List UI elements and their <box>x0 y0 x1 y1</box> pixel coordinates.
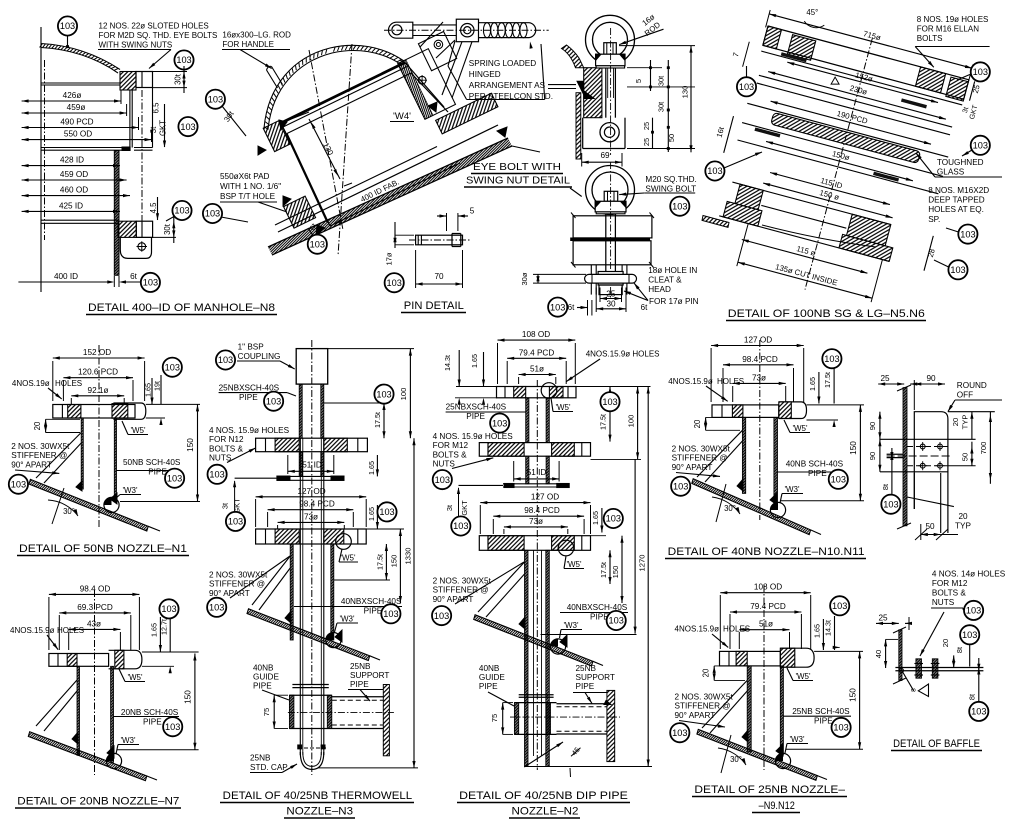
N2 40NB pipe walls <box>525 550 529 766</box>
svg-text:PIPE: PIPE <box>350 680 369 689</box>
N3 flange2 <box>256 529 367 544</box>
svg-text:1270: 1270 <box>638 555 647 572</box>
balloon 103 swing bolt <box>670 197 689 216</box>
washer lower <box>596 212 625 214</box>
N2 dim 51 ID <box>514 478 559 480</box>
N2 25NB inner pipe lines <box>533 550 535 756</box>
svg-text:150: 150 <box>186 438 195 452</box>
N7 balloon top <box>159 599 178 618</box>
svg-text:FOR M12: FOR M12 <box>433 441 469 450</box>
M leader to bolts <box>920 612 944 656</box>
N1 dim 20 stiffener <box>45 419 47 432</box>
N1 balloon pipe <box>165 469 184 488</box>
svg-text:90: 90 <box>926 374 936 383</box>
pad block lower-left <box>284 196 316 228</box>
svg-text:PIPE: PIPE <box>143 718 162 727</box>
svg-text:DETAIL OF 25NB NOZZLE–: DETAIL OF 25NB NOZZLE– <box>694 784 846 796</box>
svg-text:8t: 8t <box>955 647 964 653</box>
svg-text:25: 25 <box>606 289 616 298</box>
eye ring lower <box>586 166 635 215</box>
cover plate weld triangles <box>577 81 584 94</box>
M dim 25 <box>876 622 899 624</box>
dim 550 OD <box>22 139 152 141</box>
svg-text:STIFFENER @: STIFFENER @ <box>675 702 731 711</box>
M balloon 2 <box>960 625 979 644</box>
N2 dim 79.4 PCD <box>507 357 566 359</box>
dim 150 glass <box>766 141 913 180</box>
N2 dim 127 OD <box>480 502 590 504</box>
svg-text:NOZZLE–N2: NOZZLE–N2 <box>512 806 579 818</box>
svg-text:103: 103 <box>950 265 965 275</box>
svg-text:90° APART: 90° APART <box>209 589 250 598</box>
bottom flange right section <box>436 93 498 134</box>
svg-text:103: 103 <box>883 499 898 509</box>
svg-text:SP.: SP. <box>928 215 940 224</box>
hinge block <box>456 19 478 42</box>
N7 weld triangles <box>72 732 78 744</box>
svg-text:120.6 PCD: 120.6 PCD <box>78 368 118 377</box>
dim 115 ID <box>770 173 890 205</box>
N7 pipe walls <box>77 666 80 755</box>
svg-text:20: 20 <box>702 668 711 677</box>
N9 dim 79.4 PCD <box>730 611 801 613</box>
svg-text:103: 103 <box>435 475 450 485</box>
J wall strip <box>903 388 907 526</box>
N9 shell band <box>697 729 817 780</box>
svg-text:1.65: 1.65 <box>150 623 159 637</box>
N2 dim 75 <box>502 703 504 735</box>
N2 dim 17.5t right <box>609 387 611 442</box>
N7 weld circle <box>106 753 121 768</box>
svg-text:150: 150 <box>390 555 399 568</box>
svg-text:4.5: 4.5 <box>149 202 158 214</box>
svg-text:NUTS: NUTS <box>433 460 456 469</box>
svg-text:PIPE: PIPE <box>253 682 272 691</box>
N7 dims 1.65 12.7t <box>159 617 161 652</box>
svg-text:69: 69 <box>600 151 610 160</box>
N2 dip pipe bottom miter <box>524 766 652 768</box>
N7 balloon pipe <box>163 717 182 736</box>
N2 balloon 25NB pipe <box>490 414 509 433</box>
J plate outline <box>914 412 948 533</box>
svg-text:103: 103 <box>609 616 624 626</box>
N10 angle 30 <box>712 497 740 514</box>
M weld flag <box>918 684 928 697</box>
svg-text:6.5: 6.5 <box>152 102 161 114</box>
svg-text:459 OD: 459 OD <box>60 170 88 179</box>
svg-text:73ø: 73ø <box>304 512 318 521</box>
M wall strip <box>899 630 902 681</box>
svg-text:30°: 30° <box>63 507 75 516</box>
svg-text:4NOS.15.9ø: 4NOS.15.9ø <box>668 377 713 386</box>
dim 115 b <box>742 240 868 274</box>
M balloon holes <box>964 601 983 620</box>
svg-text:19t: 19t <box>153 381 162 391</box>
svg-text:103: 103 <box>387 278 402 288</box>
svg-text:1.65: 1.65 <box>470 354 479 368</box>
svg-text:'W5': 'W5' <box>566 560 582 569</box>
svg-text:103: 103 <box>209 470 224 480</box>
svg-text:5: 5 <box>634 79 643 83</box>
SG LG centerline <box>805 38 872 289</box>
M dim 40 <box>885 639 887 668</box>
svg-text:103: 103 <box>962 630 977 640</box>
N2 dim 100 right <box>637 387 639 460</box>
svg-text:17ø: 17ø <box>385 252 394 265</box>
svg-text:HOLES: HOLES <box>57 626 84 635</box>
N2 weld circle top <box>541 383 557 399</box>
N2 dim 1.65 right <box>601 508 603 533</box>
cover plate lines left <box>548 84 576 86</box>
svg-text:20: 20 <box>33 421 42 430</box>
svg-text:4 NOS. 15.9ø HOLES: 4 NOS. 15.9ø HOLES <box>209 426 290 435</box>
N2 flange1 small <box>497 387 577 398</box>
balloon 103 neck <box>141 273 160 292</box>
svg-text:40NB: 40NB <box>253 664 274 673</box>
N7 dim 98.4 OD <box>49 593 139 595</box>
svg-text:550øX6t PAD: 550øX6t PAD <box>220 172 270 181</box>
svg-text:1330: 1330 <box>404 548 413 565</box>
svg-text:150: 150 <box>611 566 620 579</box>
svg-text:4 NOS. 15.9ø HOLES: 4 NOS. 15.9ø HOLES <box>433 432 514 441</box>
N2 flange2 <box>479 443 590 457</box>
balloon 103 pad left <box>203 204 222 223</box>
svg-text:DETAIL OF 50NB NOZZLE–N1: DETAIL OF 50NB NOZZLE–N1 <box>19 543 187 555</box>
N3 support pipe <box>332 696 384 698</box>
N3 upper pipe walls <box>299 384 302 438</box>
svg-text:25NBXSCH-40S: 25NBXSCH-40S <box>219 384 280 393</box>
cover plate tilted <box>398 49 456 120</box>
neck left wall <box>281 123 327 222</box>
manhole N8 dished head shell <box>41 44 120 70</box>
svg-text:25NBXSCH-40S: 25NBXSCH-40S <box>446 403 507 412</box>
balloon 103 SG right-mid <box>971 136 990 155</box>
SG LG top flange band <box>768 26 969 80</box>
svg-text:40NB SCH-40S: 40NB SCH-40S <box>786 460 844 469</box>
title leader <box>570 188 582 197</box>
SG LG flange end blocks hatched <box>763 26 782 49</box>
svg-text:50: 50 <box>961 453 970 461</box>
dim 70 <box>415 250 417 288</box>
svg-text:'W3': 'W3' <box>339 615 355 624</box>
svg-text:100: 100 <box>399 388 408 401</box>
N9 pipe walls <box>747 666 751 752</box>
gasket lines <box>41 147 122 149</box>
N2 dims 17.5t 150 lower <box>609 550 611 584</box>
dim 460 OD <box>22 195 130 197</box>
svg-text:17.5t: 17.5t <box>823 372 832 388</box>
svg-text:STD. CAP: STD. CAP <box>250 763 288 772</box>
svg-text:4NOS.19ø: 4NOS.19ø <box>12 379 50 388</box>
svg-text:25NB SCH-40S: 25NB SCH-40S <box>792 707 850 716</box>
dim 17dia <box>394 222 396 248</box>
N3 weld circle shell <box>326 633 341 648</box>
svg-text:HEAD: HEAD <box>648 285 671 294</box>
svg-text:103: 103 <box>11 479 26 489</box>
svg-text:'W5': 'W5' <box>127 673 143 682</box>
svg-text:130: 130 <box>681 86 690 99</box>
svg-text:103: 103 <box>209 603 224 613</box>
N3 dim 51 ID <box>288 470 334 472</box>
N3 weld circle flange2 <box>336 534 352 550</box>
svg-text:490 PCD: 490 PCD <box>60 118 93 127</box>
dim 230 <box>768 72 946 120</box>
svg-text:GUIDE: GUIDE <box>479 673 505 682</box>
svg-text:4NOS.15.9ø: 4NOS.15.9ø <box>10 626 55 635</box>
bottom bracket <box>120 237 151 258</box>
svg-text:103: 103 <box>165 722 180 732</box>
svg-text:18ø HOLE IN: 18ø HOLE IN <box>648 266 697 275</box>
svg-text:103: 103 <box>602 397 617 407</box>
N9 dim 108 OD <box>720 592 810 594</box>
N3 dim 98.4 PCD <box>268 509 354 511</box>
svg-text:SWING BOLT: SWING BOLT <box>645 184 696 193</box>
spring <box>479 23 536 38</box>
N3 neck below flange1 <box>299 452 302 477</box>
dim 425 ID <box>22 210 120 212</box>
N2 guide pipe <box>519 694 554 696</box>
svg-text:150: 150 <box>849 441 858 455</box>
N9 flange <box>780 648 814 667</box>
ref lines right upper <box>619 45 695 47</box>
N1 dim 152 OD <box>53 357 145 359</box>
svg-text:HINGED: HINGED <box>469 70 501 79</box>
SG LG bottom flange right block <box>847 214 891 246</box>
svg-text:550 OD: 550 OD <box>64 130 92 139</box>
svg-text:2 NOS. 30WX5t: 2 NOS. 30WX5t <box>672 445 731 454</box>
SG LG bottom band lines <box>732 182 890 224</box>
N3 40NB outer pipe <box>290 544 293 640</box>
svg-text:TYP: TYP <box>961 415 970 430</box>
J break line <box>907 497 954 507</box>
svg-text:51ø: 51ø <box>759 620 773 629</box>
svg-text:460 OD: 460 OD <box>60 186 88 195</box>
svg-text:103: 103 <box>960 229 975 239</box>
dim 69 <box>581 153 583 167</box>
N1 weld triangles <box>76 481 82 491</box>
svg-text:90° APART: 90° APART <box>675 711 716 720</box>
N1 flange <box>113 403 145 419</box>
svg-text:14.3t: 14.3t <box>443 355 452 371</box>
N2 dim 51 <box>519 374 556 376</box>
svg-text:127 OD: 127 OD <box>744 336 772 345</box>
svg-text:DETAIL OF 40NB NOZZLE–N10.N: DETAIL OF 40NB NOZZLE–N10.N11 <box>668 546 865 558</box>
svg-text:'W5': 'W5' <box>340 554 356 563</box>
svg-text:103: 103 <box>266 396 281 406</box>
N10 balloon stiffener <box>671 477 690 496</box>
N3 dim 127 OD <box>256 496 367 498</box>
svg-text:6t: 6t <box>641 303 648 312</box>
svg-text:ROUND: ROUND <box>957 381 987 390</box>
N2 gasket <box>503 483 570 485</box>
SG LG vessel curve <box>762 225 876 247</box>
svg-text:25: 25 <box>878 613 888 622</box>
svg-text:103: 103 <box>165 362 180 372</box>
N10 dim 73 <box>733 382 786 384</box>
balloon 103 gasket <box>178 117 197 136</box>
svg-text:103: 103 <box>971 707 986 717</box>
svg-text:50NB SCH-40S: 50NB SCH-40S <box>123 458 181 467</box>
N10 dim 98.4 PCD <box>723 364 794 366</box>
svg-text:103: 103 <box>383 609 398 619</box>
svg-text:'W3': 'W3' <box>122 486 138 495</box>
svg-text:152 OD: 152 OD <box>83 348 111 357</box>
svg-text:NUTS: NUTS <box>932 598 955 607</box>
J dim 50 right <box>971 442 973 466</box>
svg-text:150: 150 <box>849 688 858 702</box>
svg-text:1.65: 1.65 <box>367 507 376 521</box>
svg-text:2 NOS. 30WX5t: 2 NOS. 30WX5t <box>433 577 492 586</box>
N3 dim 17.5t lower <box>385 544 387 580</box>
dim 16t <box>724 116 734 153</box>
svg-text:103: 103 <box>831 475 846 485</box>
N3 balloon holes <box>208 465 227 484</box>
svg-text:70: 70 <box>434 272 444 281</box>
N9 weld circle <box>775 753 790 768</box>
svg-text:1.65: 1.65 <box>144 383 153 397</box>
dim 150 b <box>763 183 892 218</box>
svg-text:FOR M16 ELLAN: FOR M16 ELLAN <box>917 24 979 33</box>
svg-text:6t: 6t <box>568 303 575 312</box>
svg-text:50: 50 <box>667 134 676 142</box>
svg-text:BOLTS &: BOLTS & <box>209 444 244 453</box>
svg-text:DETAIL OF BAFFLE: DETAIL OF BAFFLE <box>893 738 980 750</box>
N2 weld triangles <box>519 617 525 629</box>
N1 angle 30 <box>48 500 78 516</box>
svg-text:DETAIL OF 20NB NOZZLE–N7: DETAIL OF 20NB NOZZLE–N7 <box>17 796 179 808</box>
cleat legs lower <box>590 265 592 295</box>
N10 balloon pipe <box>829 470 848 489</box>
svg-text:SPRING LOADED: SPRING LOADED <box>469 59 536 68</box>
N2 dim 108 OD <box>498 339 576 341</box>
N3 weld triangles <box>285 611 291 623</box>
svg-text:103: 103 <box>606 514 621 524</box>
svg-text:'W4': 'W4' <box>393 111 411 122</box>
square shank upper <box>604 43 617 55</box>
svg-text:16øx300–LG. ROD: 16øx300–LG. ROD <box>222 31 291 40</box>
svg-text:45°: 45° <box>806 8 818 17</box>
cleat lower block <box>599 285 622 295</box>
svg-text:25NB: 25NB <box>350 662 371 671</box>
svg-text:700: 700 <box>979 442 988 455</box>
balloon 103 SG bottom <box>948 260 967 279</box>
N9 balloon pipe <box>832 718 851 737</box>
svg-text:TYP: TYP <box>955 522 971 531</box>
N3 dim 150 lower <box>399 529 401 603</box>
svg-text:PIPE: PIPE <box>148 468 167 477</box>
N2 dim 1270 <box>647 387 649 767</box>
svg-text:30: 30 <box>606 300 616 309</box>
svg-text:DETAIL OF 100NB SG & LG–N: DETAIL OF 100NB SG & LG–N5.N6 <box>728 308 925 320</box>
N9 weld triangles <box>742 730 748 742</box>
J left dims 90 90 <box>879 412 881 472</box>
svg-text:BOLTS &: BOLTS & <box>433 450 468 459</box>
N10 stiffener gusset <box>697 430 742 477</box>
svg-text:25: 25 <box>642 122 651 130</box>
svg-text:8t: 8t <box>968 694 977 700</box>
svg-text:25: 25 <box>880 374 890 383</box>
N3 stiffener gusset <box>252 556 290 605</box>
washer upper <box>596 66 624 68</box>
SG LG mid lines <box>759 75 952 127</box>
svg-text:14.3t: 14.3t <box>824 620 833 636</box>
svg-text:30t: 30t <box>657 102 666 112</box>
square shank lower <box>604 191 618 201</box>
N1 stiffener gusset <box>36 433 81 479</box>
SG LG gasket marks <box>761 51 962 105</box>
dim 30t top flange <box>183 66 185 93</box>
bolt shaft upper <box>605 68 607 118</box>
svg-text:150: 150 <box>184 690 193 704</box>
svg-text:103: 103 <box>376 389 391 399</box>
cleat head lower <box>598 272 623 286</box>
N10 weld triangles <box>737 479 743 491</box>
svg-text:51ø: 51ø <box>530 365 544 374</box>
dim 190 PCD <box>771 101 931 144</box>
N3 coupling <box>296 349 328 385</box>
svg-text:4NOS.15.9ø HOLES: 4NOS.15.9ø HOLES <box>586 350 660 359</box>
cover skirt lines <box>129 90 131 148</box>
M dim 20 <box>953 655 955 668</box>
N7 flange <box>109 650 142 669</box>
svg-text:103: 103 <box>174 206 189 216</box>
balloon 103 pad <box>172 201 191 220</box>
J bolt holes <box>920 444 925 449</box>
svg-text:8 NOS. M16X2D: 8 NOS. M16X2D <box>928 186 989 195</box>
svg-text:103: 103 <box>833 723 848 733</box>
svg-text:103: 103 <box>707 166 722 176</box>
svg-text:FOR HANDLE: FOR HANDLE <box>222 40 274 49</box>
balloon 103 top-left <box>58 16 77 35</box>
svg-text:1.65: 1.65 <box>591 511 600 525</box>
manhole N8 pad lines <box>41 219 118 221</box>
svg-text:103: 103 <box>176 55 191 65</box>
svg-text:'W5': 'W5' <box>555 403 571 412</box>
N10 pipe walls <box>742 417 745 493</box>
svg-text:108 OD: 108 OD <box>522 330 550 339</box>
N2 balloon stiffener <box>432 606 451 625</box>
N7 shell band <box>28 732 147 781</box>
J dim 90 top <box>914 383 945 385</box>
N10 flange <box>779 402 807 419</box>
N2 weld circle shell <box>550 639 565 654</box>
pin through cleat <box>585 274 637 283</box>
J dim 700 <box>989 412 991 484</box>
svg-text:90: 90 <box>868 452 877 460</box>
svg-text:HOLES: HOLES <box>723 625 750 634</box>
cover plate hatched section upper <box>584 68 602 118</box>
svg-text:103: 103 <box>672 201 687 211</box>
balloon 103 SG far-left <box>705 161 724 180</box>
N2 dim 73 <box>504 526 568 528</box>
nut upper <box>596 54 625 66</box>
neck right wall <box>405 63 444 108</box>
balloon 103 pin <box>385 273 404 292</box>
svg-text:PIPE: PIPE <box>479 682 498 691</box>
N3 dim 100 <box>409 349 411 439</box>
N3 cap <box>300 752 324 769</box>
M balloon 3 <box>969 702 988 721</box>
dim 130 <box>309 119 340 179</box>
svg-text:103: 103 <box>973 141 988 151</box>
N2 balloon 40NB pipe <box>607 611 626 630</box>
svg-text:12 NOS. 22ø SLOTED HOLES: 12 NOS. 22ø SLOTED HOLES <box>99 22 209 31</box>
svg-text:103: 103 <box>228 517 243 527</box>
N2 neck below flange2 <box>526 456 529 484</box>
N2 shell band <box>474 615 593 666</box>
svg-text:30t: 30t <box>163 223 172 235</box>
svg-text:FOR 17ø PIN: FOR 17ø PIN <box>649 297 699 306</box>
